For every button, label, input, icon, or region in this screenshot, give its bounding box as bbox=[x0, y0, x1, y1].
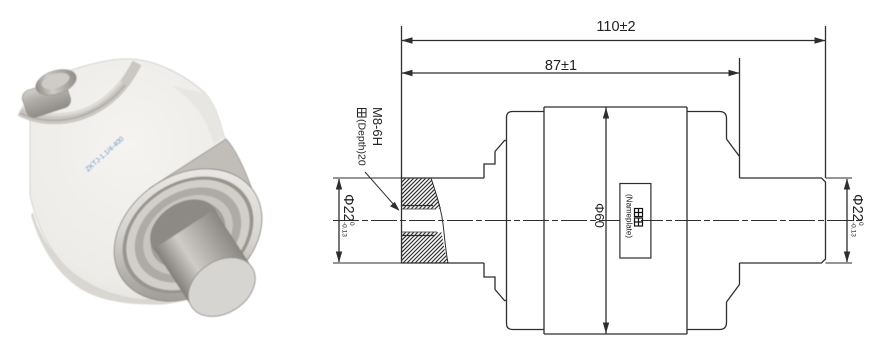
87 arrows bbox=[402, 70, 413, 76]
thread hole major lines bbox=[402, 206, 436, 236]
left shaft outline bbox=[402, 178, 485, 263]
phi22 right extensions bbox=[826, 178, 853, 263]
left end cap bbox=[507, 112, 545, 330]
left step chamfers bbox=[495, 141, 507, 301]
photo: top stud base bbox=[20, 79, 72, 120]
photo: ceramic right reflection bbox=[172, 86, 224, 144]
phi22 right dim line bbox=[846, 179, 848, 262]
svg-text:110±2: 110±2 bbox=[596, 19, 635, 35]
svg-text:(Nameplate): (Nameplate) bbox=[625, 194, 634, 238]
svg-text:-0.13: -0.13 bbox=[850, 222, 857, 237]
photo: shaft bbox=[139, 187, 229, 271]
svg-text:M8-6H: M8-6H bbox=[370, 107, 385, 146]
svg-text:-0.13: -0.13 bbox=[341, 222, 348, 237]
thread hole minor lines bbox=[402, 209, 438, 232]
dim 110±2 line bbox=[402, 40, 826, 42]
depth leader arrowhead bbox=[390, 202, 400, 211]
depth leader line bbox=[365, 172, 399, 210]
dim 87±1 line bbox=[402, 72, 740, 74]
photo: cap side wall wedge bbox=[150, 139, 262, 230]
svg-text:Φ22: Φ22 bbox=[849, 194, 865, 222]
photo: top cap rim arc bbox=[20, 63, 137, 119]
phi22 left dim line bbox=[338, 179, 340, 262]
right shaft bbox=[740, 178, 826, 263]
dim 110 right extension bbox=[825, 26, 827, 178]
dim 110 left extension bbox=[401, 26, 403, 178]
right step chamfers bbox=[727, 139, 740, 302]
right end cap bbox=[687, 112, 727, 330]
left flange bbox=[484, 152, 495, 290]
phi22 left arrows bbox=[336, 179, 342, 190]
110 arrows bbox=[402, 37, 413, 43]
CJK glyph 深 box bbox=[358, 109, 367, 118]
phi60 dim line bbox=[605, 108, 607, 334]
CJK 铭牌 boxes bbox=[635, 209, 643, 227]
svg-text:Φ60: Φ60 bbox=[592, 203, 607, 228]
phi60 arrows bbox=[603, 108, 609, 119]
photo: ceramic body bbox=[30, 59, 252, 304]
main cylinder bbox=[544, 107, 687, 334]
svg-text:Φ22: Φ22 bbox=[340, 194, 356, 222]
dim 87 right extension bbox=[739, 58, 741, 178]
svg-text:0: 0 bbox=[857, 222, 864, 226]
phi22 right arrows bbox=[844, 179, 850, 190]
photo: top stud face bbox=[33, 65, 80, 100]
centerline over nameplate bbox=[641, 220, 660, 222]
nameplate rectangle bbox=[620, 184, 651, 259]
centerline bbox=[333, 220, 862, 222]
arrowheads bbox=[336, 37, 850, 333]
hatching upper bbox=[367, 178, 482, 263]
section break wavy line bbox=[431, 178, 448, 263]
svg-text:87±1: 87±1 bbox=[545, 58, 577, 74]
photo: ceramic lower-left shade band bbox=[31, 212, 182, 304]
svg-text:0: 0 bbox=[348, 222, 355, 226]
photo: bottom cap ring stack and shaft bbox=[89, 142, 302, 348]
svg-text:(Depth)20: (Depth)20 bbox=[356, 119, 368, 166]
phi22 left extensions bbox=[333, 178, 402, 263]
